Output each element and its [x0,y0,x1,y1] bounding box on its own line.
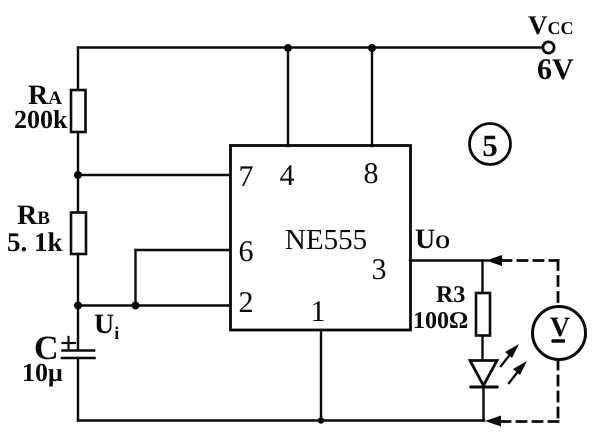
wire pin 4 to supply rail [287,48,289,147]
svg-text:10μ: 10μ [22,358,63,387]
wire pin 6 vertical branch [134,250,136,306]
wire bottom ground rail [78,419,484,421]
wire dashed meter right lower [557,360,560,422]
resistor RB [71,213,86,255]
svg-text:6V: 6V [537,53,574,86]
node Ui junction on left rail [74,302,82,310]
svg-text:V: V [550,312,570,343]
wire dashed meter top [502,259,558,262]
voltmeter V underline [552,339,566,343]
terminal Vcc open circle [543,42,554,53]
LED light arrow 1 [501,352,512,366]
wire pin 8 to supply rail [371,48,373,147]
LED cathode bar [471,386,497,389]
circled figure number 5 [470,124,511,165]
node junction pin8 on supply rail [368,44,376,52]
wire RA bottom to RB top [77,132,79,213]
svg-text:8: 8 [364,157,379,190]
svg-text:1: 1 [311,295,326,328]
wire output to R3 [481,261,483,295]
wire R3 to LED [481,336,483,361]
wire dashed meter bottom [500,420,558,423]
svg-text:100Ω: 100Ω [413,308,468,334]
capacitor C plate bottom [62,357,95,360]
node junction pin4 on supply rail [284,44,292,52]
probe arrow at bottom node [485,416,501,427]
node junction of pin7 wire on left rail [74,171,82,179]
wire to pin 7 [78,174,231,176]
wire LED to bottom rail [482,387,484,421]
voltmeter V [533,307,586,360]
svg-text:7: 7 [239,160,254,193]
wire to pin 2 [78,304,231,306]
probe arrow at output node [486,255,502,266]
wire capacitor to bottom rail [77,358,79,421]
LED D1 triangle [470,361,497,386]
wire top supply rail [78,46,543,48]
wire pin 3 output [410,259,488,261]
svg-text:5. 1k: 5. 1k [7,227,63,257]
wire dashed meter right upper [557,261,560,307]
resistor RA [71,90,86,132]
svg-text:5: 5 [482,128,498,163]
wire pin 6 horizontal [136,249,232,251]
node junction pin1 on bottom rail [318,417,324,423]
wire left rail from top to RA [77,48,79,92]
capacitor C plate top [63,349,95,352]
capacitor plus sign [67,337,69,349]
svg-text:6: 6 [239,235,254,268]
resistor R3 [476,293,490,336]
node junction pin6 branch [132,302,140,310]
svg-text:3: 3 [372,253,387,286]
op-amp/IC U1 NE555 body [231,146,411,331]
svg-text:2: 2 [239,286,254,319]
svg-text:R3: R3 [436,282,465,308]
wire pin 1 to bottom rail [320,330,322,421]
wire RB bottom to capacitor [77,254,79,350]
svg-text:4: 4 [280,159,295,192]
svg-text:200k: 200k [14,105,68,134]
svg-text:NE555: NE555 [285,224,367,256]
LED light arrow 2 [509,369,520,383]
